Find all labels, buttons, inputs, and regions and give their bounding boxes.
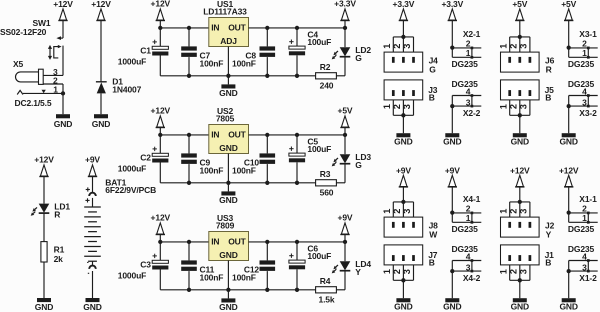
svg-text:1000uF: 1000uF: [118, 164, 146, 174]
wire: [160, 289, 315, 291]
ground: [219, 84, 237, 98]
wire: [188, 271, 190, 290]
svg-text:DG235: DG235: [568, 59, 595, 69]
wire: [344, 28, 346, 47]
svg-text:GND: GND: [394, 301, 412, 311]
wire: [92, 177, 94, 193]
svg-text:+3.3V: +3.3V: [441, 0, 463, 9]
wire: [60, 37, 63, 39]
svg-text:DG235: DG235: [568, 224, 595, 234]
ground: [394, 133, 412, 146]
junction: [158, 133, 162, 137]
capacitor C5 100uF: [289, 136, 331, 162]
wire: [159, 21, 161, 28]
ground: [35, 298, 53, 312]
svg-text:1: 1: [382, 209, 392, 214]
capacitor C9 100nF: [181, 153, 223, 175]
capacitor C12 100nF: [232, 260, 275, 282]
wire: [266, 57, 268, 76]
power +3.3V: [393, 0, 415, 21]
regulator US3 7809: [209, 213, 249, 261]
svg-text:+12V: +12V: [151, 213, 171, 223]
svg-text:+12V: +12V: [53, 0, 73, 9]
svg-text:DC2.1/5.5: DC2.1/5.5: [15, 98, 52, 108]
wire: [160, 241, 209, 243]
wire: [188, 164, 190, 183]
power +12V: [91, 0, 111, 21]
svg-text:+12V: +12V: [151, 0, 171, 9]
svg-text:+12V: +12V: [510, 165, 530, 175]
LED LD4 (Y): [332, 259, 372, 277]
svg-text:560: 560: [320, 188, 334, 198]
wire: [159, 163, 161, 183]
LED LD3 (G): [332, 152, 372, 170]
junction: [226, 74, 230, 78]
power +9V: [85, 155, 100, 177]
junction: [187, 181, 191, 185]
power +12V: [151, 213, 171, 235]
svg-text:100nF: 100nF: [200, 273, 224, 283]
wire: [160, 134, 209, 136]
connector X2-2 (DG235): [450, 79, 481, 118]
svg-text:X2-1: X2-1: [463, 29, 481, 39]
svg-text:2: 2: [509, 209, 519, 214]
svg-text:1000uF: 1000uF: [118, 271, 146, 281]
svg-text:W: W: [429, 230, 438, 240]
svg-text:+3.3V: +3.3V: [334, 0, 356, 9]
power +5V: [512, 0, 527, 21]
svg-text:OUT: OUT: [228, 237, 246, 247]
svg-text:OUT: OUT: [228, 130, 246, 140]
wire: [344, 57, 346, 76]
wire: [344, 235, 346, 242]
ground: [511, 298, 529, 311]
wire: [336, 75, 345, 77]
resistor R1 2k: [41, 242, 65, 264]
svg-text:GND: GND: [559, 301, 577, 311]
connector J2 (Y): [498, 200, 554, 240]
pin 3 of X5: [43, 74, 63, 76]
svg-text:1: 1: [466, 213, 471, 223]
LED LD2 (G): [332, 45, 372, 63]
wire: [159, 242, 161, 260]
svg-text:GND: GND: [443, 136, 461, 146]
wire: [266, 242, 268, 261]
wire: [296, 28, 298, 46]
power +12V: [34, 155, 54, 177]
svg-text:7809: 7809: [216, 220, 235, 230]
wire: [227, 76, 229, 85]
svg-text:C1: C1: [140, 46, 151, 56]
junction: [343, 133, 347, 137]
junction: [265, 74, 269, 78]
svg-text:+5V: +5V: [561, 0, 576, 9]
svg-text:2: 2: [582, 39, 587, 49]
wire: [402, 115, 404, 133]
wire: [227, 154, 229, 183]
ground: [219, 191, 237, 205]
svg-text:LD1117A33: LD1117A33: [203, 6, 247, 16]
svg-text:Y: Y: [546, 230, 552, 240]
svg-text:1: 1: [582, 213, 587, 223]
wire: [402, 187, 404, 202]
wire: [296, 269, 298, 290]
connector X1-1 (DG235): [567, 194, 598, 234]
svg-text:2: 2: [466, 204, 471, 214]
svg-text:3: 3: [519, 209, 529, 214]
wire: [159, 28, 161, 46]
svg-text:X2-2: X2-2: [463, 108, 481, 118]
connector X2-1 (DG235): [450, 29, 481, 69]
resistor R2 240: [316, 62, 337, 91]
ground: [443, 298, 461, 311]
svg-text:X1-1: X1-1: [579, 194, 597, 204]
svg-text:100nF: 100nF: [200, 166, 224, 176]
svg-text:+12V: +12V: [151, 106, 171, 116]
wire: [519, 115, 521, 133]
svg-text:GND: GND: [511, 301, 529, 311]
svg-text:GND: GND: [219, 250, 237, 260]
svg-text:3: 3: [402, 209, 412, 214]
power +12V: [151, 0, 171, 20]
wire: [227, 290, 229, 299]
svg-text:1: 1: [498, 104, 508, 109]
connector X3-1 (DG235): [567, 29, 598, 69]
wire: [451, 187, 453, 212]
wire: [43, 214, 45, 242]
wire: [227, 183, 229, 192]
svg-text:R: R: [546, 65, 552, 75]
junction: [265, 288, 269, 292]
power +12V: [151, 106, 171, 128]
wire: [519, 21, 521, 37]
wire: [451, 106, 453, 133]
svg-text:+12V: +12V: [559, 165, 579, 175]
wire: [249, 27, 346, 29]
svg-text:+12V: +12V: [91, 0, 111, 9]
svg-text:100nF: 100nF: [200, 59, 224, 69]
svg-text:100nF: 100nF: [232, 273, 256, 283]
svg-text:SS02-12F20: SS02-12F20: [0, 27, 47, 37]
capacitor C1 1000uF: [118, 40, 169, 67]
ground: [559, 298, 577, 311]
wire: [188, 242, 190, 261]
connector J4 (G): [382, 35, 438, 75]
svg-text:1: 1: [466, 48, 471, 58]
svg-text:+9V: +9V: [445, 165, 460, 175]
svg-text:GND: GND: [219, 143, 237, 153]
ground: [443, 133, 461, 146]
power +9V: [445, 165, 460, 187]
wire: [266, 271, 268, 290]
power +3.3V: [334, 0, 356, 20]
wire: [344, 135, 346, 154]
wire: [296, 135, 298, 153]
svg-text:2: 2: [392, 44, 402, 49]
connector X4-2 (DG235): [450, 244, 481, 283]
junction: [158, 26, 162, 30]
svg-text:R3: R3: [320, 169, 331, 179]
svg-text:GND: GND: [511, 136, 529, 146]
svg-text:G: G: [355, 53, 362, 63]
svg-text:GND: GND: [54, 119, 72, 129]
capacitor C3 1000uF: [118, 254, 169, 281]
power +9V: [338, 213, 353, 235]
wire: [159, 128, 161, 135]
svg-text:1: 1: [382, 44, 392, 49]
wire: [568, 271, 570, 298]
wire: [188, 28, 190, 47]
svg-text:G: G: [355, 160, 362, 170]
wire: [296, 242, 298, 260]
wire: [43, 177, 45, 204]
svg-text:3: 3: [519, 44, 529, 49]
wire: [160, 75, 315, 77]
diode D1 1N4007: [96, 77, 142, 95]
wire: [451, 271, 453, 298]
svg-text:R2: R2: [320, 62, 331, 72]
ground: [83, 298, 101, 312]
wire: [266, 28, 268, 47]
wire: [227, 261, 229, 290]
svg-text:GND: GND: [219, 195, 237, 205]
junction: [265, 181, 269, 185]
junction: [187, 74, 191, 78]
wire: [344, 21, 346, 28]
connector X4-1 (DG235): [450, 194, 481, 234]
svg-text:IN: IN: [211, 130, 219, 140]
connector J3 (B): [382, 80, 438, 118]
svg-text:2: 2: [509, 104, 519, 109]
junction: [295, 26, 299, 30]
junction: [295, 181, 299, 185]
capacitor C7 100nF: [181, 46, 223, 68]
svg-text:GND: GND: [35, 302, 53, 312]
svg-text:2: 2: [392, 104, 402, 109]
wire: [402, 21, 404, 37]
ground: [92, 114, 110, 129]
svg-text:B: B: [429, 258, 435, 268]
junction: [295, 74, 299, 78]
svg-text:GND: GND: [559, 136, 577, 146]
wire: [160, 182, 315, 184]
wire: [100, 93, 102, 114]
wire: [62, 93, 64, 114]
wire: [336, 182, 345, 184]
svg-text:3: 3: [519, 269, 529, 274]
connector X1-2 (DG235): [567, 244, 598, 283]
resistor R4 1.5k: [316, 276, 337, 305]
wire: [344, 128, 346, 135]
svg-text:R: R: [54, 210, 60, 220]
svg-text:ADJ: ADJ: [220, 36, 237, 46]
wire: [451, 21, 453, 48]
svg-text:3: 3: [402, 104, 412, 109]
wire: [344, 271, 346, 290]
svg-text:1: 1: [382, 269, 392, 274]
connector J8 (W): [382, 200, 438, 240]
junction: [295, 133, 299, 137]
svg-text:2: 2: [582, 204, 587, 214]
svg-text:+5V: +5V: [338, 106, 353, 116]
svg-text:100nF: 100nF: [232, 59, 256, 69]
junction: [343, 240, 347, 244]
junction: [226, 288, 230, 292]
wire: [249, 134, 346, 136]
wire: [296, 55, 298, 76]
svg-text:DG235: DG235: [452, 224, 479, 234]
connector J1 (B): [498, 245, 554, 283]
svg-text:+9V: +9V: [396, 165, 411, 175]
svg-text:100uF: 100uF: [307, 144, 331, 154]
svg-text:2: 2: [392, 209, 402, 214]
battery BAT1 6F22/9V/PCB: [84, 178, 156, 274]
connector X5 (DC2.1/5.5 barrel jack): [13, 59, 52, 108]
svg-text:GND: GND: [394, 136, 412, 146]
wire: [344, 164, 346, 183]
svg-text:1: 1: [498, 209, 508, 214]
power +12V: [53, 0, 73, 21]
svg-text:X3-2: X3-2: [579, 108, 597, 118]
svg-text:240: 240: [320, 81, 334, 91]
capacitor C2 1000uF: [118, 147, 169, 174]
ground: [219, 298, 237, 312]
capacitor C11 100nF: [181, 260, 223, 282]
wire: [336, 289, 345, 291]
junction: [187, 26, 191, 30]
wire: [519, 187, 521, 202]
pin 2 of X5: [43, 83, 63, 85]
junction: [158, 240, 162, 244]
resistor R3 560: [316, 169, 337, 198]
wire: [249, 241, 346, 243]
svg-text:GND: GND: [219, 302, 237, 312]
svg-text:+12V: +12V: [34, 155, 54, 165]
svg-text:1.5k: 1.5k: [319, 295, 335, 305]
svg-text:B: B: [545, 258, 551, 268]
wire: [62, 84, 64, 93]
LED LD1 (R): [31, 202, 71, 220]
junction: [187, 240, 191, 244]
svg-text:X4-1: X4-1: [463, 194, 481, 204]
svg-text:C3: C3: [140, 260, 151, 270]
junction: [265, 133, 269, 137]
power +9V: [396, 165, 411, 187]
capacitor C8 100nF: [232, 46, 275, 68]
junction: [295, 240, 299, 244]
junction: [265, 26, 269, 30]
power +5V: [338, 106, 353, 128]
wire: [159, 135, 161, 153]
wire: [188, 135, 190, 154]
svg-text:3: 3: [402, 269, 412, 274]
svg-text:1N4007: 1N4007: [112, 85, 141, 95]
svg-text:R1: R1: [54, 244, 65, 254]
capacitor C10 100nF: [232, 153, 275, 175]
ground: [54, 114, 72, 129]
svg-text:Y: Y: [355, 267, 361, 277]
connector J5 (B): [498, 80, 554, 118]
svg-text:1000uF: 1000uF: [118, 57, 146, 67]
junction: [295, 288, 299, 292]
wire: [402, 280, 404, 298]
switch SW1: [48, 36, 62, 60]
svg-text:IN: IN: [211, 237, 219, 247]
svg-text:3: 3: [402, 44, 412, 49]
wire: [159, 56, 161, 76]
svg-text:6F22/9V/PCB: 6F22/9V/PCB: [105, 185, 156, 195]
svg-text:IN: IN: [211, 23, 219, 33]
svg-text:GND: GND: [443, 301, 461, 311]
wire: [344, 242, 346, 261]
svg-text:X4-2: X4-2: [463, 273, 481, 283]
svg-text:B: B: [429, 93, 435, 103]
svg-text:100uF: 100uF: [307, 37, 331, 47]
svg-text:B: B: [545, 93, 551, 103]
wire: [100, 21, 102, 82]
svg-text:X5: X5: [13, 59, 24, 69]
wire: [43, 262, 45, 298]
ground: [394, 298, 412, 311]
svg-text:2: 2: [466, 39, 471, 49]
wire: [159, 270, 161, 290]
svg-text:1: 1: [53, 85, 58, 95]
svg-text:2: 2: [509, 44, 519, 49]
junction: [187, 288, 191, 292]
wire: [160, 27, 209, 29]
capacitor C4 100uF: [289, 29, 331, 55]
pin 1 of X5: [17, 85, 63, 95]
regulator US1 LD1117A33: [203, 0, 248, 46]
ground: [559, 133, 577, 146]
svg-text:+5V: +5V: [512, 0, 527, 9]
wire: [159, 235, 161, 242]
svg-text:C2: C2: [140, 153, 151, 163]
power +12V: [510, 165, 530, 187]
svg-text:1: 1: [498, 44, 508, 49]
svg-text:G: G: [429, 65, 436, 75]
svg-text:100uF: 100uF: [307, 251, 331, 261]
svg-text:7805: 7805: [216, 113, 235, 123]
junction: [226, 181, 230, 185]
svg-text:OUT: OUT: [228, 23, 246, 33]
svg-text:X3-1: X3-1: [579, 29, 597, 39]
wire: [568, 21, 570, 48]
connector J6 (R): [498, 35, 554, 75]
connector J7 (B): [382, 245, 438, 283]
wire: [62, 21, 64, 38]
svg-text:+9V: +9V: [85, 155, 100, 165]
junction: [343, 26, 347, 30]
wire: [92, 271, 94, 298]
svg-text:DG235: DG235: [452, 59, 479, 69]
wire: [62, 46, 64, 76]
power +3.3V: [441, 0, 463, 21]
junction: [61, 91, 65, 95]
junction: [187, 133, 191, 137]
capacitor C6 100uF: [289, 243, 331, 269]
power +5V: [561, 0, 576, 21]
svg-text:2: 2: [509, 269, 519, 274]
svg-text:R4: R4: [320, 276, 331, 286]
wire: [227, 47, 229, 76]
wire: [188, 57, 190, 76]
power +12V: [559, 165, 579, 187]
connector X3-2 (DG235): [567, 79, 598, 118]
svg-text:1: 1: [382, 104, 392, 109]
svg-text:100nF: 100nF: [232, 166, 256, 176]
junction: [265, 240, 269, 244]
